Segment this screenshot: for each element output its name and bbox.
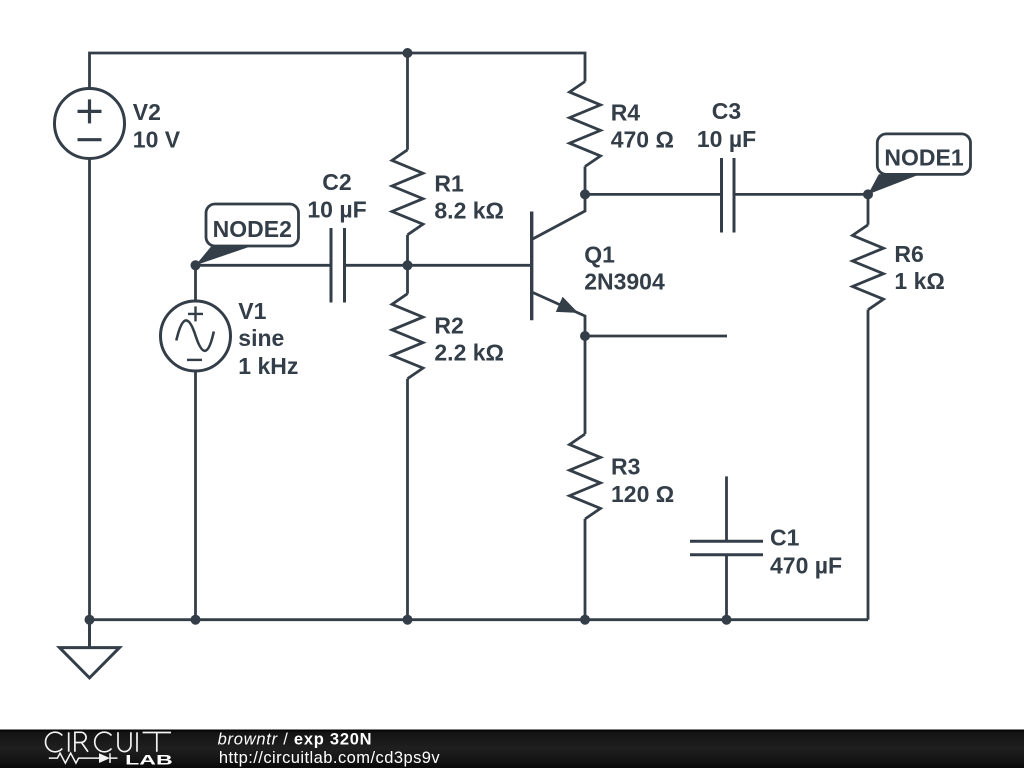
wire C1 bottom lead bbox=[725, 555, 728, 620]
transistor Q1 collector branch bbox=[532, 194, 585, 239]
svg-text:V1: V1 bbox=[238, 298, 266, 324]
svg-text:C1: C1 bbox=[770, 525, 800, 551]
footer logo letter I bbox=[68, 732, 70, 751]
resistor R2 bbox=[392, 294, 423, 379]
capacitor C1 plates bbox=[690, 541, 763, 554]
V2 plus sign bbox=[78, 99, 102, 123]
wire R1 bottom lead bbox=[406, 235, 409, 265]
junction dot top rail bbox=[403, 48, 413, 58]
source V1 circle bbox=[161, 301, 231, 371]
footer logo letter T bbox=[143, 733, 171, 752]
svg-text:10 µF: 10 µF bbox=[697, 126, 756, 152]
junction dot node1 bbox=[863, 189, 873, 199]
V2 minus sign bbox=[78, 138, 102, 141]
svg-text:LAB: LAB bbox=[125, 752, 173, 768]
wire V1 bottom lead bbox=[194, 371, 197, 620]
footer bar bbox=[0, 730, 1024, 768]
wire R3 top lead bbox=[584, 336, 587, 434]
transistor Q1 emitter arrowhead bbox=[556, 297, 578, 313]
wire R2 leads bbox=[406, 265, 409, 293]
capacitor C3 plates bbox=[722, 158, 735, 233]
footer logo letter R bbox=[75, 732, 88, 751]
wire collector to C3 bbox=[585, 193, 722, 196]
wire C3 to node1 bbox=[734, 193, 868, 196]
wire emitter stub bbox=[585, 335, 727, 338]
svg-text:R2: R2 bbox=[434, 313, 463, 339]
wire R6 top lead bbox=[867, 194, 870, 224]
V1 minus sign bbox=[187, 359, 202, 361]
junction dot ground V1 bbox=[191, 615, 201, 625]
transistor Q1 base bar bbox=[530, 212, 533, 321]
svg-text:470 Ω: 470 Ω bbox=[611, 127, 674, 153]
junction dot R1/R2 bbox=[403, 260, 413, 270]
wire R1 top lead bbox=[406, 53, 409, 150]
junction dot ground R2 bbox=[403, 615, 413, 625]
svg-text:8.2 kΩ: 8.2 kΩ bbox=[434, 198, 504, 224]
source V2 circle bbox=[55, 89, 125, 159]
resistor R6 bbox=[853, 225, 884, 310]
node NODE2 flag box bbox=[206, 204, 299, 246]
svg-text:10 µF: 10 µF bbox=[307, 197, 366, 223]
resistor R3 bbox=[570, 434, 601, 519]
wire R6 bottom to ground rail bbox=[867, 310, 870, 620]
resistor R4 bbox=[570, 82, 601, 167]
wire R3 bottom lead bbox=[584, 519, 587, 620]
svg-text:NODE2: NODE2 bbox=[213, 216, 292, 242]
ground symbol bbox=[60, 620, 120, 678]
wire V2 bottom to ground rail bbox=[88, 159, 91, 620]
footer logo doodle diode bbox=[99, 753, 110, 763]
junction dot ground C1 bbox=[722, 615, 732, 625]
node NODE2 flag tail bbox=[196, 247, 251, 266]
svg-text:Q1: Q1 bbox=[584, 242, 615, 268]
svg-text:R1: R1 bbox=[434, 171, 464, 197]
wire ground rail bbox=[90, 618, 869, 621]
svg-text:sine: sine bbox=[238, 325, 284, 351]
svg-text:1 kΩ: 1 kΩ bbox=[894, 268, 944, 294]
V1 plus sign bbox=[188, 306, 203, 321]
wire R4 bottom lead bbox=[584, 167, 587, 195]
V1 sine squiggle bbox=[176, 320, 214, 350]
junction dot emitter bbox=[580, 331, 590, 341]
svg-text:2.2 kΩ: 2.2 kΩ bbox=[434, 339, 504, 365]
wire V1 top lead bbox=[194, 265, 197, 301]
capacitor C2 plates bbox=[331, 228, 345, 303]
footer logo letter C bbox=[46, 732, 63, 752]
transistor Q1 emitter branch bbox=[532, 292, 585, 336]
svg-text:2N3904: 2N3904 bbox=[584, 268, 665, 294]
wire C1 top open lead bbox=[725, 476, 728, 541]
junction dot ground V2 bbox=[85, 615, 95, 625]
svg-text:R4: R4 bbox=[611, 100, 641, 126]
svg-text:R3: R3 bbox=[611, 453, 640, 479]
svg-text:470 µF: 470 µF bbox=[770, 552, 842, 578]
footer logo doodle wire bbox=[49, 753, 118, 763]
footer logo letter C bbox=[95, 732, 112, 752]
junction dot ground R3 bbox=[580, 615, 590, 625]
svg-text:browntr / exp 320N: browntr / exp 320N bbox=[218, 730, 373, 748]
wire top rail bbox=[90, 53, 586, 89]
svg-text:10 V: 10 V bbox=[133, 127, 181, 153]
svg-text:NODE1: NODE1 bbox=[884, 145, 963, 171]
svg-text:1 kHz: 1 kHz bbox=[238, 353, 298, 379]
svg-text:C2: C2 bbox=[322, 169, 351, 195]
svg-text:V2: V2 bbox=[133, 99, 161, 125]
footer logo letter I bbox=[136, 732, 138, 751]
junction dot collector bbox=[580, 189, 590, 199]
node NODE1 flag box bbox=[877, 134, 970, 175]
wire node2 to C2 bbox=[196, 264, 332, 267]
node NODE1 flag tail bbox=[868, 174, 920, 194]
wire C2 to base bbox=[345, 264, 532, 267]
footer logo letter U bbox=[118, 732, 131, 751]
svg-text:120 Ω: 120 Ω bbox=[611, 481, 674, 507]
junction dot node2 bbox=[191, 260, 201, 270]
svg-text:C3: C3 bbox=[712, 98, 741, 124]
svg-text:R6: R6 bbox=[894, 241, 923, 267]
svg-text:http://circuitlab.com/cd3ps9v: http://circuitlab.com/cd3ps9v bbox=[219, 749, 441, 767]
resistor R1 bbox=[392, 150, 423, 235]
